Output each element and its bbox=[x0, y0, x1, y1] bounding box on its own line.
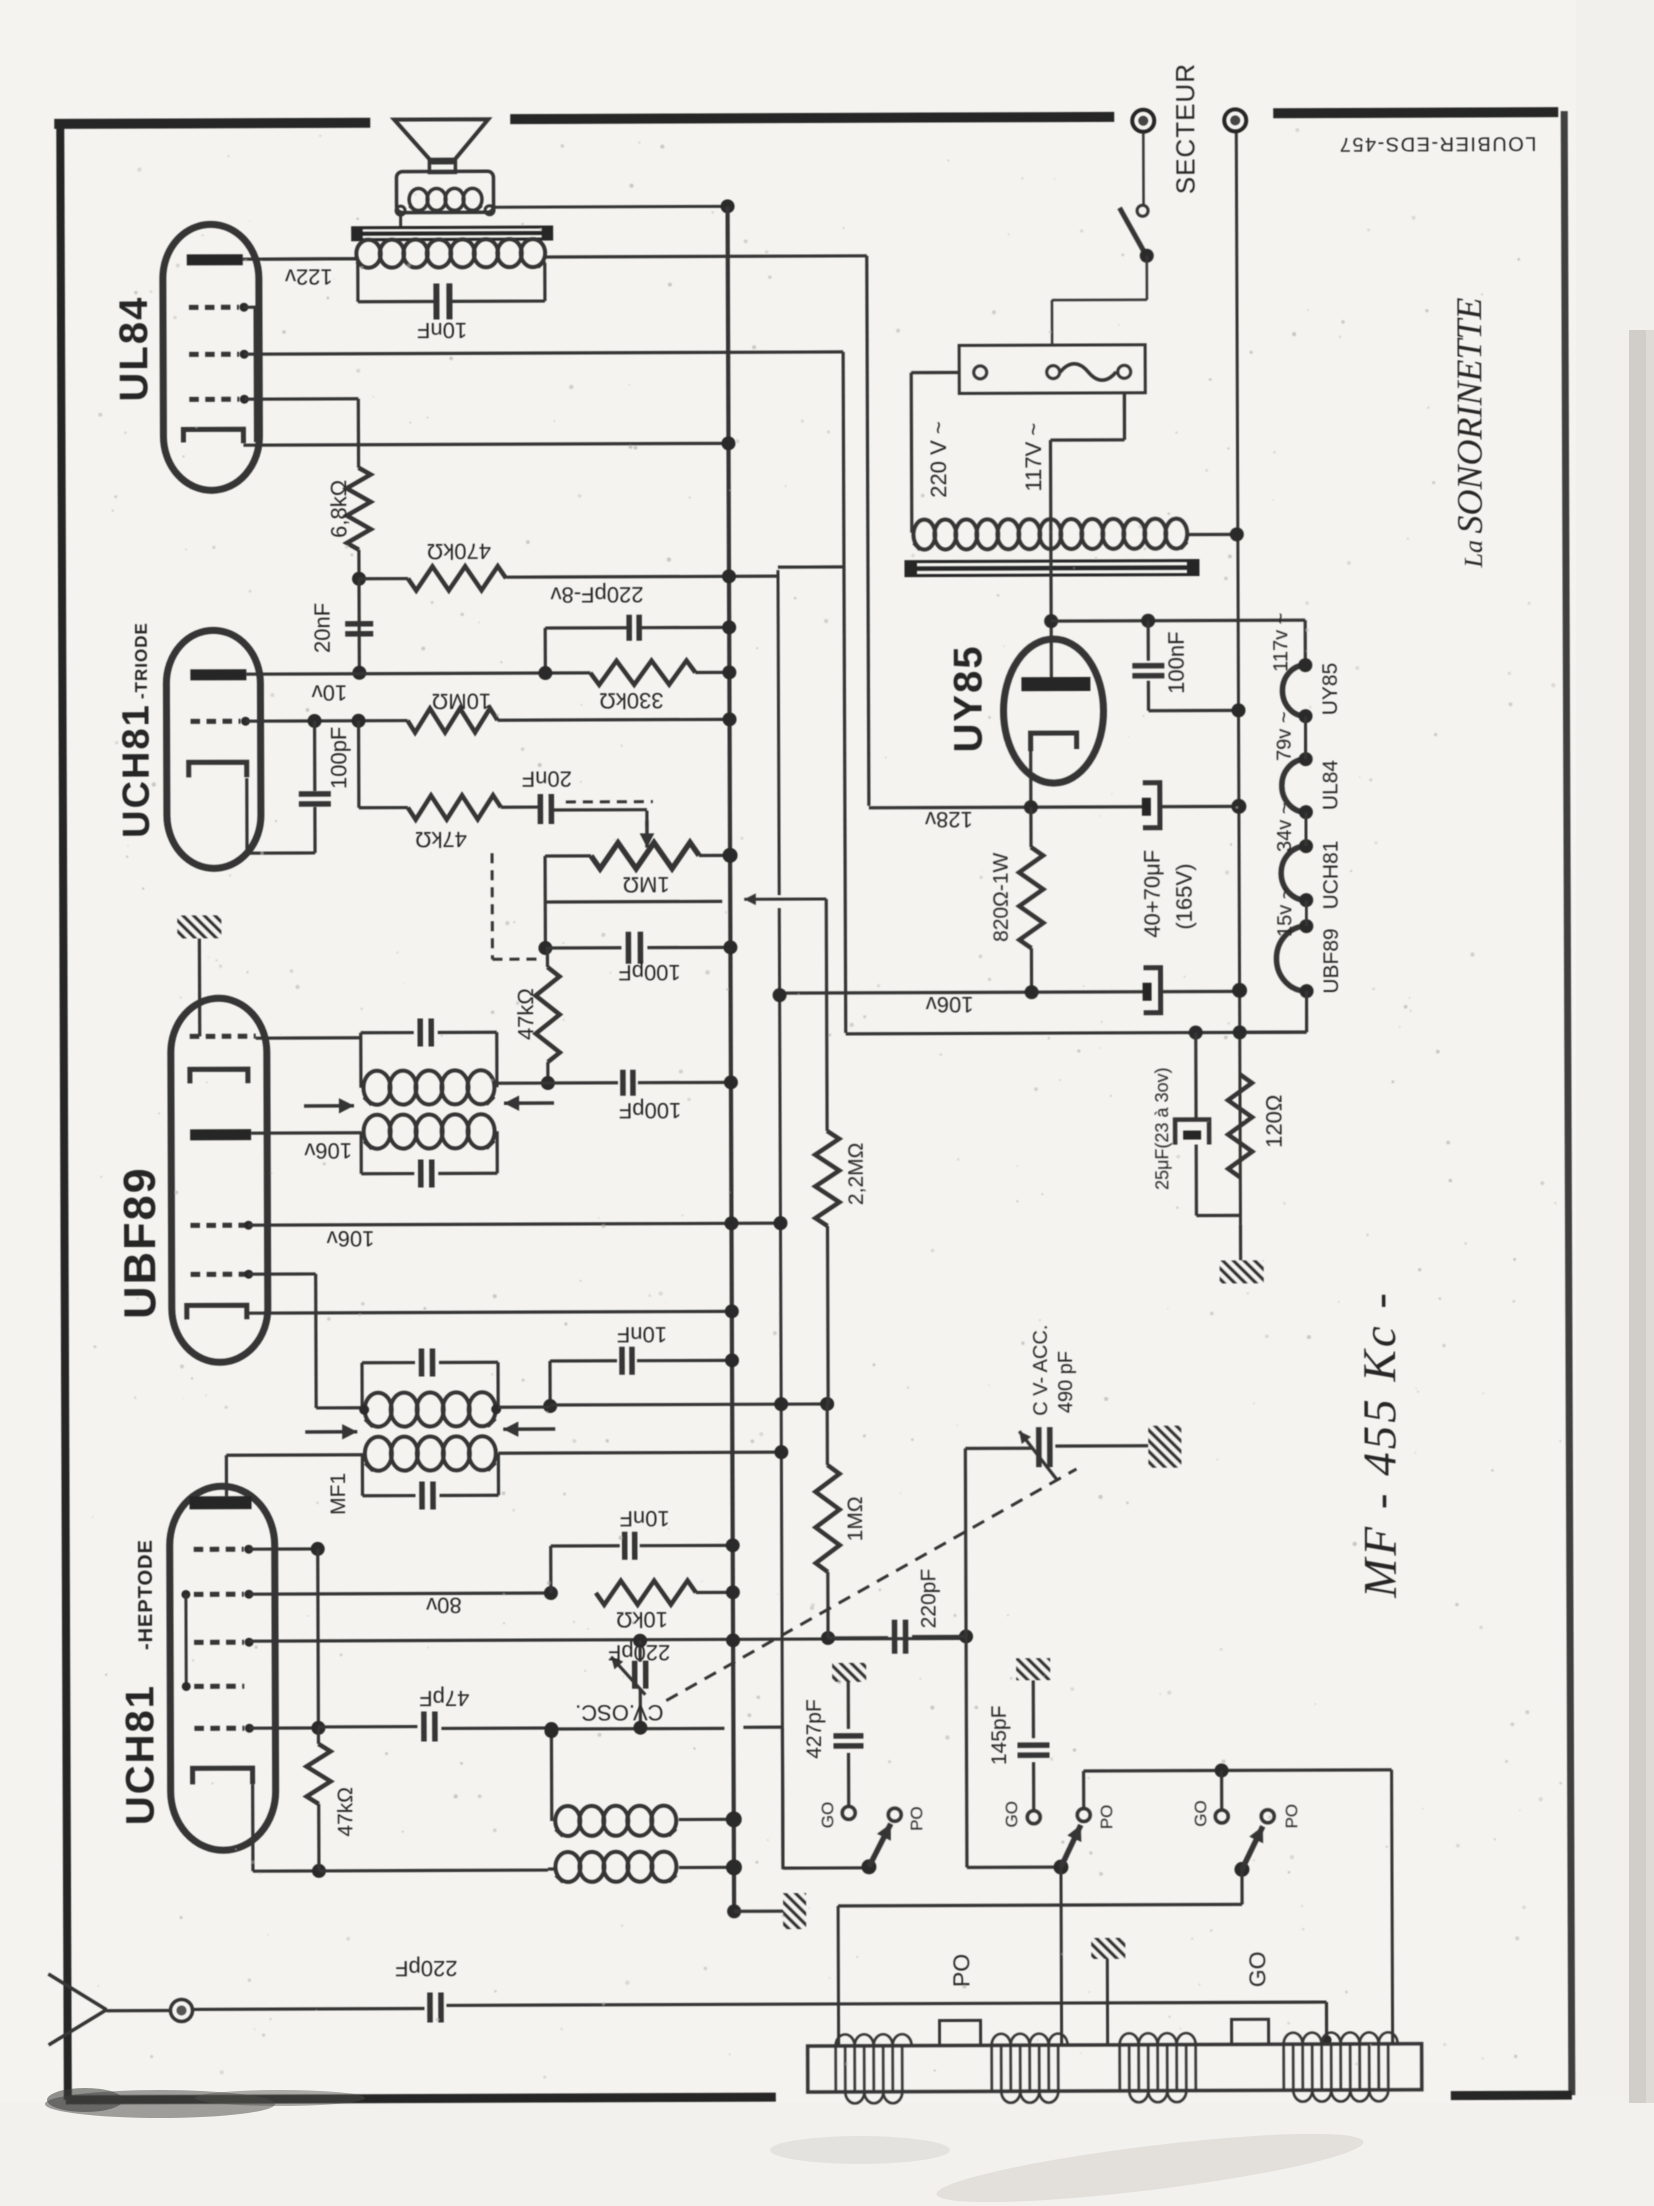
svg-text:La SONORINETTE: La SONORINETTE bbox=[1449, 297, 1490, 568]
svg-text:-HEPTODE: -HEPTODE bbox=[135, 1539, 157, 1650]
svg-text:UY85: UY85 bbox=[1319, 663, 1342, 716]
svg-text:330kΩ: 330kΩ bbox=[599, 688, 663, 713]
svg-text:1MΩ: 1MΩ bbox=[623, 872, 670, 897]
svg-text:GO: GO bbox=[1191, 1800, 1210, 1827]
svg-text:10nF: 10nF bbox=[417, 318, 467, 343]
svg-text:47kΩ: 47kΩ bbox=[513, 988, 538, 1040]
svg-text:106v: 106v bbox=[327, 1226, 375, 1251]
svg-text:220pF: 220pF bbox=[395, 1956, 457, 1981]
svg-text:(165V): (165V) bbox=[1172, 864, 1197, 930]
svg-text:GO: GO bbox=[1244, 1951, 1270, 1987]
svg-text:PO: PO bbox=[948, 1954, 974, 1987]
svg-text:2,2MΩ: 2,2MΩ bbox=[845, 1143, 868, 1205]
svg-text:34v ~: 34v ~ bbox=[1274, 802, 1296, 852]
svg-text:117v ~: 117v ~ bbox=[1270, 613, 1292, 672]
svg-text:47pF: 47pF bbox=[419, 1686, 469, 1711]
svg-text:120Ω: 120Ω bbox=[1261, 1095, 1286, 1148]
svg-text:LOUBIER-EDS-457: LOUBIER-EDS-457 bbox=[1338, 132, 1536, 155]
svg-text:C V- ACC.: C V- ACC. bbox=[1030, 1325, 1052, 1416]
svg-text:100pF: 100pF bbox=[326, 727, 351, 789]
svg-text:20nF: 20nF bbox=[522, 766, 572, 791]
svg-text:220pF: 220pF bbox=[608, 1640, 670, 1665]
svg-text:UCH81: UCH81 bbox=[115, 703, 158, 838]
svg-text:47kΩ: 47kΩ bbox=[415, 827, 467, 852]
svg-text:820Ω-1W: 820Ω-1W bbox=[990, 852, 1013, 941]
svg-text:10v: 10v bbox=[312, 680, 348, 705]
svg-text:GO: GO bbox=[1002, 1801, 1021, 1828]
svg-text:128v: 128v bbox=[925, 807, 973, 832]
svg-text:47kΩ: 47kΩ bbox=[334, 1787, 357, 1837]
svg-text:10MΩ: 10MΩ bbox=[432, 689, 491, 714]
svg-text:GO: GO bbox=[818, 1802, 837, 1829]
svg-text:UY85: UY85 bbox=[946, 644, 990, 752]
svg-text:UBF89: UBF89 bbox=[114, 1166, 166, 1319]
svg-text:UCH81: UCH81 bbox=[1320, 841, 1343, 910]
svg-text:106v: 106v bbox=[304, 1138, 352, 1163]
svg-text:100pF: 100pF bbox=[619, 1098, 681, 1123]
svg-text:UBF89: UBF89 bbox=[1320, 928, 1343, 993]
svg-text:40+70μF: 40+70μF bbox=[1140, 850, 1165, 938]
svg-text:PO: PO bbox=[1097, 1805, 1116, 1830]
svg-text:UL84: UL84 bbox=[1319, 760, 1342, 811]
svg-text:15v ~: 15v ~ bbox=[1274, 887, 1296, 937]
svg-text:PO: PO bbox=[907, 1806, 926, 1831]
svg-text:UCH81: UCH81 bbox=[118, 1684, 163, 1825]
svg-text:80v: 80v bbox=[426, 1593, 462, 1618]
svg-text:1MΩ: 1MΩ bbox=[844, 1496, 867, 1541]
svg-text:427pF: 427pF bbox=[803, 1699, 826, 1759]
svg-text:-TRIODE: -TRIODE bbox=[132, 622, 151, 699]
svg-text:MF - 455 Kc -: MF - 455 Kc - bbox=[1354, 1290, 1407, 1599]
svg-text:20nF: 20nF bbox=[310, 603, 335, 653]
svg-text:100nF: 100nF bbox=[1164, 631, 1189, 693]
svg-text:UL84: UL84 bbox=[112, 296, 156, 402]
svg-text:220pF: 220pF bbox=[917, 1569, 940, 1629]
svg-text:79v ~: 79v ~ bbox=[1274, 711, 1296, 761]
svg-text:10nF: 10nF bbox=[617, 1322, 667, 1347]
svg-text:220pF-8v: 220pF-8v bbox=[551, 582, 644, 607]
svg-text:PO: PO bbox=[1282, 1804, 1301, 1829]
svg-text:SECTEUR: SECTEUR bbox=[1170, 63, 1201, 194]
svg-text:MF1: MF1 bbox=[327, 1473, 350, 1515]
svg-text:10nF: 10nF bbox=[619, 1506, 669, 1531]
svg-text:145pF: 145pF bbox=[988, 1705, 1011, 1765]
svg-text:10kΩ: 10kΩ bbox=[616, 1607, 668, 1632]
svg-text:122v: 122v bbox=[285, 264, 333, 289]
svg-text:220 V ~: 220 V ~ bbox=[926, 421, 951, 498]
svg-text:117V ~: 117V ~ bbox=[1021, 423, 1046, 492]
svg-text:100pF: 100pF bbox=[618, 960, 680, 985]
svg-text:490 pF: 490 pF bbox=[1055, 1351, 1077, 1413]
svg-text:CV.OSC.: CV.OSC. bbox=[575, 1700, 664, 1725]
svg-text:6,8kΩ: 6,8kΩ bbox=[326, 480, 351, 538]
svg-text:470kΩ: 470kΩ bbox=[427, 539, 491, 564]
svg-text:25μF(23 à 3ov): 25μF(23 à 3ov) bbox=[1152, 1067, 1172, 1190]
svg-text:106v: 106v bbox=[926, 992, 974, 1017]
